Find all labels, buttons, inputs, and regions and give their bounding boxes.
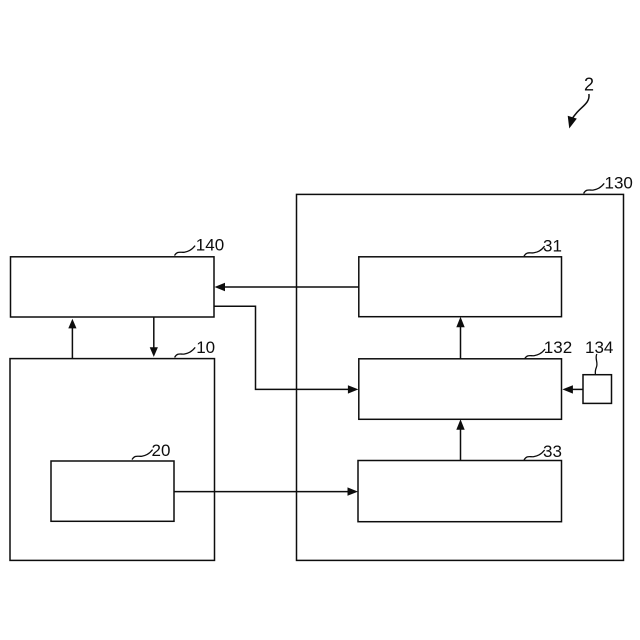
block 134 — [583, 375, 612, 404]
label 140 — [175, 235, 225, 255]
label 20 — [132, 441, 170, 460]
label 132 — [525, 338, 573, 359]
label 134 — [585, 338, 613, 375]
label 10 — [175, 338, 216, 358]
block 33 — [358, 461, 562, 522]
svg-text:20: 20 — [152, 441, 171, 460]
wire 134 to 132 (arrow into 132 right edge) — [562, 385, 583, 393]
wire 132 to 31 (up arrow) — [456, 317, 464, 359]
svg-text:132: 132 — [544, 338, 572, 357]
svg-text:2: 2 — [584, 75, 594, 95]
svg-text:10: 10 — [196, 338, 215, 357]
block 140 — [11, 257, 215, 317]
wire 140 to 10 (down arrow) — [150, 317, 158, 357]
block 10 — [10, 359, 215, 561]
svg-text:140: 140 — [196, 235, 224, 254]
svg-text:31: 31 — [543, 237, 562, 256]
svg-text:134: 134 — [585, 338, 613, 357]
block 20 — [51, 461, 174, 521]
wire 20 to 33 (arrow into 33 left edge) — [174, 487, 358, 495]
label 2 with leader arrow — [568, 75, 594, 128]
wire 31 to 140 (arrow into 140 right edge) — [215, 283, 359, 291]
block 132 — [359, 359, 562, 420]
wire 10 to 140 (up arrow) — [68, 319, 76, 359]
block 130 (outer enclosure) — [297, 194, 624, 560]
block 31 — [359, 257, 562, 317]
wire 33 to 132 (up arrow) — [456, 419, 464, 460]
label 33 — [524, 442, 562, 461]
svg-text:130: 130 — [605, 174, 633, 193]
wire 140 to 132 (elbow, arrow into 132 left edge) — [214, 306, 358, 393]
svg-text:33: 33 — [543, 442, 562, 461]
label 130 — [584, 174, 633, 194]
label 31 — [524, 237, 562, 257]
